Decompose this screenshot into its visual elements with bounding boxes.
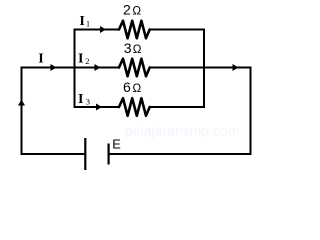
wire: branch 1 right lead to collector xyxy=(150,29,205,31)
svg-text:pelajaransmp.com: pelajaransmp.com xyxy=(125,123,239,139)
svg-text:3: 3 xyxy=(124,40,132,56)
arrow I (right) xyxy=(51,64,57,71)
wire: branch 3 right lead to collector xyxy=(150,106,205,108)
svg-text:E: E xyxy=(112,137,121,152)
svg-text:3: 3 xyxy=(86,96,90,106)
arrow out (right) xyxy=(233,64,239,71)
svg-text:6: 6 xyxy=(123,79,131,95)
svg-text:2: 2 xyxy=(123,2,131,18)
arrow I2 (right) xyxy=(95,64,101,71)
wire: main left vertical (x=21.5, y 66.5-155) xyxy=(21,67,23,156)
node: junction vertical (x=74.5, y 29.5-107) xyxy=(74,29,76,109)
svg-text:Ω: Ω xyxy=(133,43,142,56)
wire: branch 2 left lead (y=67.5) xyxy=(75,67,120,69)
svg-text:1: 1 xyxy=(86,18,90,28)
wire: right vertical (x=250.5, y 67.5-155) xyxy=(250,67,252,156)
wire: bottom left segment (y=154) xyxy=(21,153,86,155)
wire: main horizontal in (y=67.5, x 20.5-74.5) xyxy=(21,67,76,69)
arrow I1 (right) xyxy=(100,26,106,33)
arrow up on left wire (current direction) xyxy=(18,100,25,106)
svg-text:I: I xyxy=(79,14,84,29)
svg-text:Ω: Ω xyxy=(132,5,141,18)
wire: collector vertical (x=204, y 29.5-107) xyxy=(203,29,205,109)
resistor R2 3 ohm (zigzag) xyxy=(119,59,150,77)
svg-text:I: I xyxy=(78,52,83,67)
wire: branch 1 left lead (y=29.5) xyxy=(75,29,120,31)
battery plate short (right) xyxy=(107,144,109,165)
svg-text:I: I xyxy=(78,92,83,107)
svg-text:Ω: Ω xyxy=(133,82,142,95)
svg-text:2: 2 xyxy=(85,56,89,66)
wire: bottom right segment (y=154) xyxy=(109,153,252,155)
svg-text:I: I xyxy=(38,52,43,67)
wire: branch 3 left lead (y=107) xyxy=(75,106,120,108)
resistor R1 2 ohm (zigzag) xyxy=(119,21,150,39)
battery plate long (left) xyxy=(84,138,86,170)
arrow I3 (right) xyxy=(96,104,102,111)
wire: branch 2 right lead to right corner xyxy=(150,67,252,69)
resistor R3 6 ohm (zigzag) xyxy=(119,98,150,116)
